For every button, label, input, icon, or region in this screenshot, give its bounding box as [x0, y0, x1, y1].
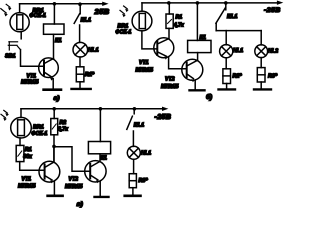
wire: R2 to VT1 collector with coupling node (v)	[53, 135, 55, 162]
wire: relay to VT1 collector (a)	[53, 34, 55, 59]
light arrows (b)	[120, 6, 129, 17]
resistor R1* (a)	[76, 67, 84, 82]
svg-text:К1: К1	[200, 35, 206, 41]
wire: R1* to ground (a)	[79, 82, 81, 89]
junction dot (b) R1 tap	[167, 1, 171, 5]
contact K1.1 (v)	[133, 109, 135, 114]
resistor R3* (b)	[257, 68, 265, 82]
ground (b HL2 branch)	[254, 88, 271, 90]
wire: bus to HL2 (b)	[260, 31, 262, 45]
wire: rail to relay K1 (a)	[53, 4, 55, 24]
transistor VT1 (v)	[39, 161, 60, 182]
svg-text:VT1: VT1	[22, 176, 32, 182]
wire: R3* to ground (b)	[260, 82, 262, 89]
junction dot (v) R2 tap	[52, 107, 56, 111]
wire: lamp to R1* (a)	[79, 57, 81, 67]
svg-text:R1*: R1*	[85, 72, 95, 78]
wire: top supply rail (a)	[20, 3, 105, 5]
svg-text:в): в)	[77, 201, 84, 208]
svg-text:HL1: HL1	[233, 48, 243, 54]
ground (v VT1)	[48, 195, 63, 198]
junction dot (v) relay tap	[99, 107, 103, 111]
svg-text:К1.1: К1.1	[227, 14, 238, 20]
resistor R1 4.7k (b)	[166, 14, 173, 28]
svg-text:R1: R1	[176, 15, 183, 21]
wire: BR1 top lead to rail (v)	[20, 109, 22, 118]
wire: rail to R2 (v)	[53, 109, 55, 119]
svg-text:МП21Б: МП21Б	[18, 184, 36, 190]
svg-text:б): б)	[206, 93, 212, 101]
svg-text:-25В: -25В	[155, 114, 172, 121]
resistor R2* (b)	[223, 69, 231, 84]
relay coil K1 (b)	[188, 40, 211, 52]
wire: VT1 emitter to VT2 base (b)	[169, 58, 187, 69]
junction dot (v) coupling node	[52, 145, 56, 149]
wire: R1 to VT1 base (v)	[20, 162, 45, 171]
svg-text:R3*: R3*	[268, 74, 278, 80]
svg-text:К1: К1	[55, 38, 62, 44]
svg-text:МП21Б: МП21Б	[136, 67, 154, 73]
contact K1.1 (b)	[225, 3, 227, 10]
ground (a VT1)	[44, 88, 61, 91]
photoresistor BR1 (a)	[10, 13, 29, 32]
wire: VT1 emitter to ground (a)	[52, 79, 54, 90]
wire: bus to HL1 (b)	[225, 31, 227, 45]
wire: HL1 to R3* (v)	[133, 159, 135, 173]
svg-text:К1: К1	[101, 156, 107, 162]
light arrows (v)	[1, 110, 9, 121]
lamp HL1 (b)	[220, 45, 233, 58]
svg-text:HL1: HL1	[141, 150, 151, 156]
junction dot (a) relay tap	[53, 2, 57, 6]
wire: HL2 to R3* (b)	[260, 58, 262, 68]
wire: VT2 collector to relay (b)	[197, 53, 199, 60]
svg-text:МП21Б: МП21Б	[65, 184, 83, 190]
power arrow -25V (v)	[162, 107, 168, 111]
wire: R3* to ground (v)	[132, 188, 134, 195]
svg-text:VT1: VT1	[139, 60, 149, 66]
svg-text:HL1: HL1	[88, 48, 99, 54]
power arrow -25V (b)	[277, 1, 283, 5]
wire: BR1 to R1 (v)	[19, 138, 21, 145]
wire: VT1 emitter to ground (v)	[53, 181, 55, 194]
svg-text:МП21Б: МП21Б	[21, 80, 39, 86]
svg-text:VT1: VT1	[27, 73, 37, 79]
svg-text:HL2: HL2	[268, 48, 278, 54]
photoresistor BR1 (v)	[11, 117, 32, 138]
lamp HL1 (a)	[73, 42, 88, 57]
wire: VT2 collector to relay (v)	[99, 154, 101, 161]
svg-text:BR1: BR1	[33, 125, 44, 131]
wire: BR1 to VT1 base (b)	[142, 31, 157, 49]
ground (b VT2)	[190, 89, 205, 91]
svg-text:36к: 36к	[23, 154, 32, 160]
wire: rail to relay top (v)	[99, 109, 101, 142]
wire: R1 to VT1 collector (b)	[168, 28, 170, 38]
svg-text:VT2: VT2	[69, 176, 79, 182]
resistor R2 6,7k (v)	[51, 119, 58, 135]
transistor VT2 (b)	[182, 59, 203, 80]
resistor R3* (v)	[129, 174, 136, 188]
svg-text:R2*: R2*	[233, 74, 243, 80]
svg-text:VT2: VT2	[165, 77, 175, 83]
relay coil K1 (a)	[44, 24, 65, 34]
wire: VT2 emitter to ground (v)	[99, 181, 101, 196]
svg-text:-25В: -25В	[264, 7, 281, 14]
wire: SB1 to VT1 base (a)	[21, 50, 45, 67]
svg-text:R2: R2	[60, 120, 67, 126]
junction dot (a) contact tap	[78, 2, 82, 6]
wire: top supply rail (b)	[142, 2, 279, 4]
svg-text:R1: R1	[25, 147, 32, 153]
wire: BR1 bottom lead (a)	[20, 32, 22, 39]
svg-text:25В: 25В	[94, 7, 110, 16]
switch SB1	[8, 42, 20, 50]
svg-text:К1.1: К1.1	[81, 18, 92, 24]
wire: rail to R1 (b)	[168, 3, 170, 14]
svg-text:6,7к: 6,7к	[58, 127, 68, 133]
wire: coupling node to VT2 base (v)	[54, 147, 90, 172]
svg-text:SB1: SB1	[5, 53, 16, 59]
lamp HL2 (b)	[255, 45, 268, 58]
junction dot (v) contact tap	[133, 107, 137, 111]
photoresistor BR1 (b)	[132, 11, 152, 31]
wire: supply rail (v)	[21, 108, 164, 110]
wire: HL1 to R2* (b)	[225, 58, 227, 69]
wire: VT1 collector up to coupling (v)	[53, 146, 55, 162]
svg-text:МП21Б: МП21Б	[161, 84, 179, 90]
junction dot (b) contact tap	[224, 1, 228, 5]
wire: lamp bus (b)	[216, 30, 261, 32]
transistor VT1 (b)	[154, 38, 174, 58]
lamp HL1 (v)	[127, 146, 140, 159]
svg-text:ФСК-1: ФСК-1	[32, 131, 48, 137]
contact K1.1 (a)	[79, 4, 81, 14]
svg-text:К1.1: К1.1	[134, 122, 145, 128]
transistor VT1 (a)	[39, 58, 59, 78]
wire: rail to relay top (b)	[196, 3, 198, 41]
ground (b HL1 branch)	[219, 88, 236, 90]
wire: VT2 emitter to ground (b)	[194, 81, 196, 90]
svg-text:ФСК-1: ФСК-1	[116, 29, 132, 35]
wire: R2* to ground (b)	[226, 84, 228, 89]
junction dot (b) relay tap	[196, 1, 200, 5]
ground (a lamp branch)	[72, 88, 91, 90]
ground (v VT2)	[95, 196, 109, 198]
resistor R1 36k (v)	[16, 145, 24, 161]
relay coil K1 (v)	[88, 142, 110, 154]
svg-text:4,7к: 4,7к	[173, 23, 184, 29]
power arrow 25V (a)	[102, 2, 108, 6]
svg-text:а): а)	[54, 95, 61, 102]
transistor VT2 (v)	[85, 161, 106, 182]
svg-text:ФСК-1: ФСК-1	[30, 13, 47, 19]
wire: BR1 top lead to rail (b)	[141, 3, 143, 11]
wire: BR1 top lead to rail (a)	[19, 4, 21, 13]
svg-text:R3*: R3*	[139, 178, 149, 184]
ground (v lamp branch)	[125, 195, 141, 198]
light arrows (a)	[1, 4, 12, 16]
